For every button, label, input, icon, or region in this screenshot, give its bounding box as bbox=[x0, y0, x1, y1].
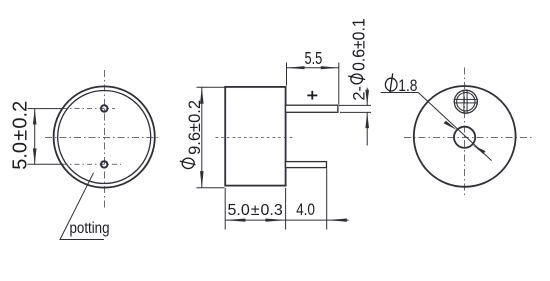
leader line potting bbox=[60, 173, 104, 240]
svg-text:5.0±0.2: 5.0±0.2 bbox=[9, 101, 31, 170]
svg-text:4.0: 4.0 bbox=[296, 200, 315, 219]
svg-text:5.0±0.3: 5.0±0.3 bbox=[228, 202, 283, 219]
lower arrow (up) bbox=[365, 112, 369, 128]
extension line top hole bbox=[28, 108, 64, 110]
lower arrow shaft bbox=[366, 112, 368, 145]
screw vent symbol: horizontal bar bbox=[454, 99, 477, 103]
svg-text:potting: potting bbox=[70, 220, 110, 237]
upper arrow (down) bbox=[365, 90, 369, 106]
upper arrow shaft bbox=[366, 88, 368, 106]
svg-text:2-: 2- bbox=[350, 86, 369, 101]
dimension line bbox=[201, 87, 203, 188]
extension line left bbox=[286, 63, 288, 86]
arrow up bbox=[33, 109, 37, 125]
inner circle of bottom view bbox=[58, 91, 151, 184]
arrow right at x=285.4 (5.0±0.3) bbox=[265, 219, 285, 222]
extension line pin end bbox=[326, 169, 328, 230]
extension line bottom hole bbox=[28, 163, 64, 165]
svg-text:5.5: 5.5 bbox=[305, 48, 323, 68]
dimension line bbox=[287, 67, 339, 69]
centerline through top hole bbox=[62, 108, 115, 110]
dim symbol Φ (of Φ9.6±0.2) bbox=[182, 158, 194, 168]
lower pin bbox=[286, 162, 327, 168]
extension line body right bbox=[285, 188, 287, 230]
svg-text:0.6±0.1: 0.6±0.1 bbox=[349, 18, 369, 71]
arrow left at x=326.9 (4.0, outside) bbox=[327, 219, 347, 222]
arrow to hole lower-right bbox=[472, 145, 485, 154]
extension line pin top bbox=[339, 104, 371, 106]
dimension line bottom bbox=[225, 219, 348, 221]
extension line bottom bbox=[197, 187, 225, 189]
arrow right bbox=[321, 66, 339, 69]
extension line top bbox=[197, 86, 225, 88]
vertical centerline bbox=[104, 70, 106, 209]
leader diagonal line Φ1.8 bbox=[418, 92, 492, 161]
extension line body left bbox=[224, 188, 226, 230]
arrow left at x=225.4 (5.0±0.3) bbox=[225, 219, 245, 222]
arrow down bbox=[33, 148, 37, 164]
plus polarity mark bbox=[307, 94, 317, 96]
extension line right bbox=[338, 63, 340, 105]
centerline through bottom hole bbox=[62, 163, 121, 165]
arrow down bbox=[200, 171, 204, 188]
extension line pin bottom bbox=[340, 111, 371, 113]
dimension line 5.0±0.2 bbox=[34, 109, 36, 165]
arrow left bbox=[287, 66, 305, 69]
dim symbol Φ (of 2-Φ0.6±0.1) bbox=[351, 74, 363, 84]
vertical centerline right view bbox=[464, 68, 466, 198]
pin hole top bbox=[101, 105, 107, 111]
body rectangle bbox=[225, 87, 285, 186]
dim symbol Φ (of Φ1.8) bbox=[385, 78, 397, 91]
arrow up bbox=[200, 87, 204, 104]
arrow to hole upper-left bbox=[444, 121, 457, 130]
screw vent symbol: vertical bar bbox=[464, 90, 467, 113]
upper pin bbox=[286, 105, 338, 112]
outer circle top view bbox=[414, 86, 516, 187]
center sound hole bbox=[454, 127, 475, 148]
svg-text:1.8: 1.8 bbox=[398, 76, 417, 95]
screw vent symbol: inner circle bbox=[457, 93, 475, 111]
horizontal centerline right view bbox=[404, 137, 535, 139]
outer circle of bottom view bbox=[54, 86, 155, 187]
leader underline Φ1.8 bbox=[381, 92, 418, 94]
pin hole bottom bbox=[101, 161, 107, 167]
screw vent symbol: outer circle bbox=[454, 90, 477, 113]
horizontal centerline of body bbox=[216, 137, 293, 139]
svg-text:9.6±0.2: 9.6±0.2 bbox=[185, 100, 204, 155]
horizontal centerline bbox=[45, 136, 160, 138]
